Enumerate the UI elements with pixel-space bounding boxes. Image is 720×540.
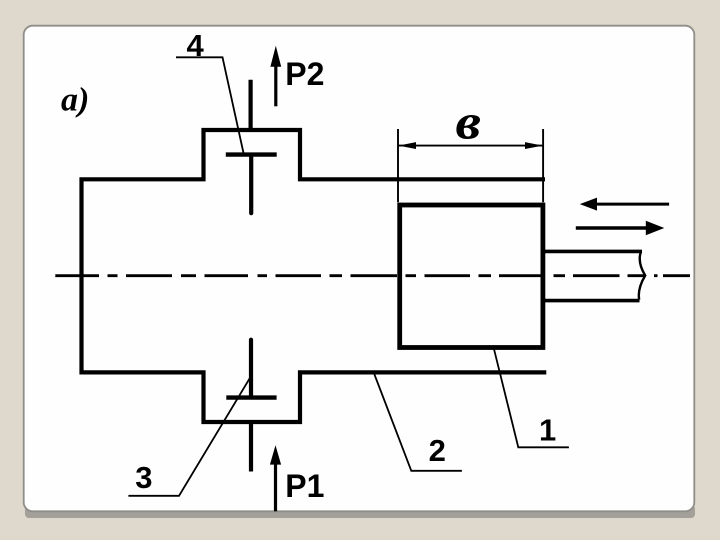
bottom supply pipe (249, 422, 253, 472)
bottom shadow band (25, 505, 695, 518)
dimension arrowhead right (525, 142, 543, 149)
dimension extension line left (397, 129, 399, 202)
shaft break squiggle (639, 252, 645, 300)
dimension arrowhead left (398, 142, 416, 149)
svg-text:2: 2 (429, 433, 446, 468)
svg-text:1: 1 (539, 412, 556, 447)
motion arrowhead left (580, 198, 597, 211)
bottom valve plate 3 (226, 395, 276, 399)
centerline (axis) (55, 274, 690, 277)
motion arrow left shaft (595, 203, 669, 206)
shaft top line (543, 250, 642, 254)
dimension line в (399, 145, 543, 147)
leader line 4 (176, 57, 244, 153)
piston block 1 (400, 205, 543, 348)
svg-text:3: 3 (135, 460, 152, 495)
top valve stem (249, 156, 253, 213)
P1 arrow shaft (274, 464, 277, 512)
leader line 2 (374, 374, 462, 471)
top valve plate 4 (226, 152, 277, 156)
housing body outline (82, 130, 547, 422)
P2 arrowhead (270, 46, 281, 67)
svg-text:P1: P1 (285, 468, 324, 504)
svg-text:P2: P2 (285, 56, 324, 92)
motion arrow right shaft (576, 226, 647, 229)
top supply pipe (249, 80, 253, 132)
dimension extension line right (542, 129, 544, 202)
bottom valve stem (249, 340, 253, 396)
svg-text:а): а) (61, 82, 89, 119)
svg-text:в: в (456, 93, 482, 149)
P1 arrowhead (270, 445, 281, 464)
shaft bottom line (543, 299, 640, 303)
motion arrowhead right (646, 221, 665, 235)
P2 arrow shaft (274, 67, 277, 107)
leader line 3 (128, 378, 250, 496)
leader line 1 (494, 348, 569, 447)
svg-text:4: 4 (187, 28, 205, 63)
